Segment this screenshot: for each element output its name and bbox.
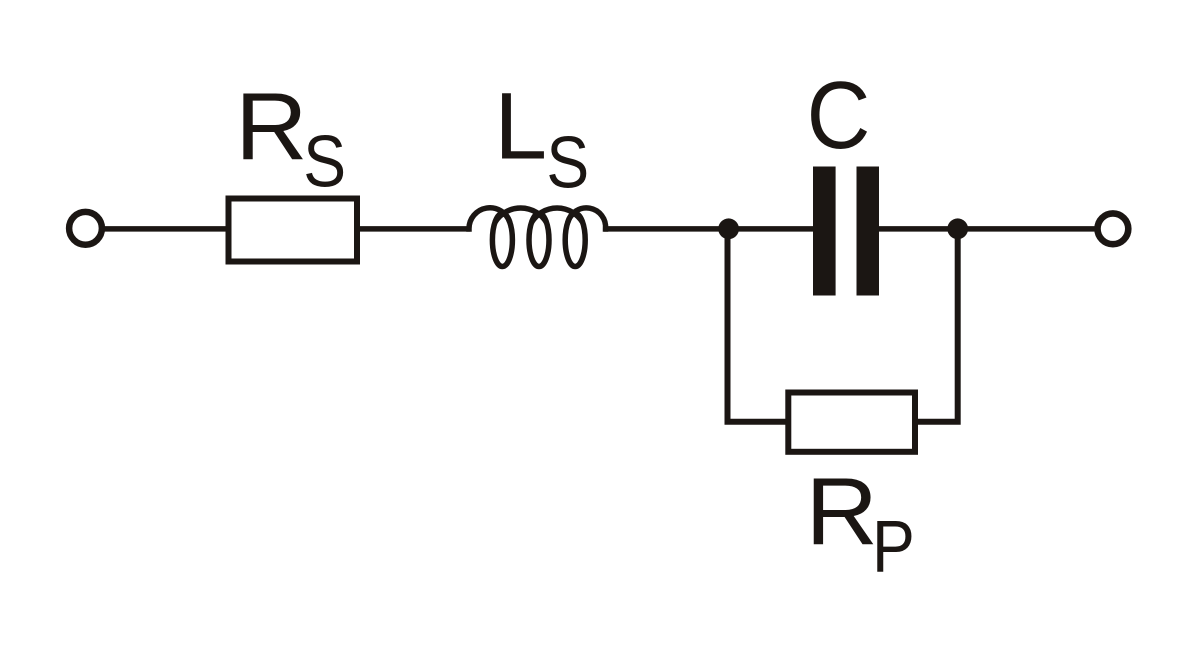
svg-text:R: R (806, 458, 878, 566)
svg-text:S: S (546, 121, 589, 203)
svg-text:L: L (494, 74, 547, 180)
svg-text:R: R (235, 73, 307, 181)
svg-text:S: S (303, 121, 346, 203)
svg-text:P: P (872, 506, 915, 588)
svg-text:C: C (807, 61, 871, 168)
